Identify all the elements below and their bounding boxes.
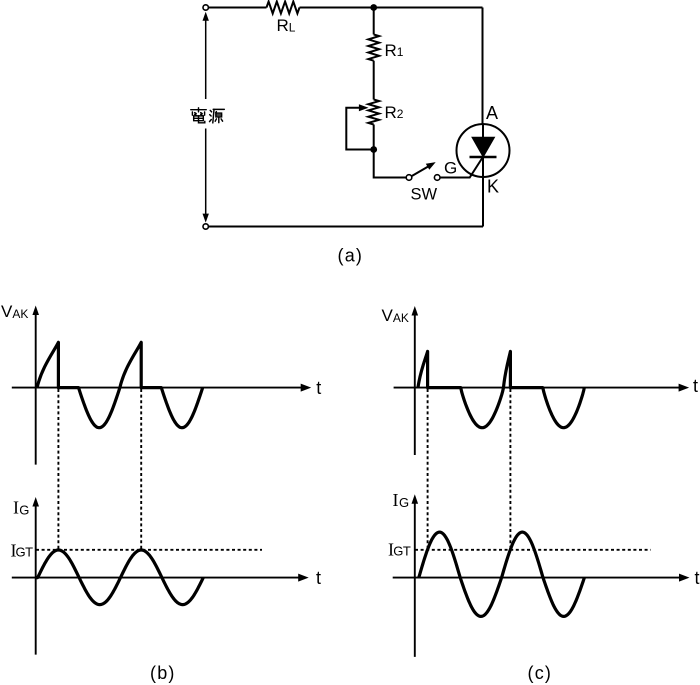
thyristor SCR body circle bbox=[457, 124, 510, 177]
dashed firing line 2 (b) bbox=[140, 389, 142, 550]
arrowhead V axis (c) bbox=[412, 306, 419, 316]
switch SW terminal right bbox=[434, 175, 440, 181]
axis I_G (c) bbox=[393, 502, 682, 657]
svg-text:t: t bbox=[316, 378, 321, 398]
resistor R1 bbox=[368, 35, 379, 61]
arrowhead I axis (c) bbox=[412, 494, 419, 504]
terminal bottom bbox=[203, 224, 208, 229]
node junction top bbox=[370, 4, 377, 11]
arrowhead I axis (b) bbox=[32, 497, 39, 507]
wiper arrowhead of R2 bbox=[359, 104, 369, 111]
node junction R2 bottom bbox=[370, 146, 377, 153]
svg-text:G: G bbox=[19, 502, 29, 517]
axis I_G (b) bbox=[12, 506, 301, 655]
源 bbox=[210, 110, 212, 121]
電 bbox=[191, 109, 206, 111]
threshold dashed I_GT (b) bbox=[36, 549, 262, 551]
svg-text:GT: GT bbox=[16, 545, 34, 560]
axis V_AK (b) bbox=[12, 314, 304, 465]
terminal top bbox=[203, 5, 208, 10]
wire top left segment bbox=[208, 7, 266, 9]
power source dimension arrow bbox=[203, 12, 209, 223]
svg-text:t: t bbox=[693, 376, 698, 396]
thyristor SCR cathode bar bbox=[470, 156, 497, 158]
wire R1 to R2 bbox=[373, 61, 375, 100]
svg-text:SW: SW bbox=[411, 186, 438, 204]
threshold dashed I_GT (c) bbox=[415, 549, 651, 551]
svg-text:(c): (c) bbox=[528, 663, 553, 683]
resistor RL bbox=[267, 2, 300, 14]
wire switch to gate bbox=[440, 157, 483, 178]
label 電源 (hand-drawn glyphs) bbox=[191, 108, 225, 123]
wire bottom bbox=[208, 226, 483, 228]
svg-text:A: A bbox=[486, 103, 498, 123]
wire mid vertical above R1 bbox=[373, 8, 375, 35]
svg-text:G: G bbox=[399, 495, 409, 510]
waveform V_AK (c) bbox=[418, 351, 584, 427]
thyristor SCR anode triangle bbox=[472, 137, 495, 157]
dashed firing line 2 (c) bbox=[509, 389, 511, 550]
arrowhead V axis (b) bbox=[32, 306, 39, 316]
svg-text:(b): (b) bbox=[150, 663, 176, 683]
wire right vertical (anode side) bbox=[482, 8, 484, 125]
axis V_AK (c) bbox=[394, 315, 681, 456]
wire cathode to bottom bbox=[482, 157, 484, 227]
switch SW arm bbox=[411, 167, 428, 177]
switch SW arm arrowhead bbox=[426, 162, 436, 170]
wire R2 to switch corner bbox=[374, 125, 407, 178]
svg-text:(a): (a) bbox=[338, 246, 364, 266]
svg-text:K: K bbox=[487, 177, 499, 197]
arrowhead t axis (c bottom) bbox=[679, 574, 690, 582]
dashed firing line 1 (b) bbox=[57, 389, 59, 550]
wire top right segment bbox=[300, 7, 483, 9]
dashed firing line 1 (c) bbox=[427, 389, 429, 550]
waveform I_G (c) bbox=[419, 532, 585, 616]
potentiometer R2 bbox=[368, 100, 379, 125]
svg-text:GT: GT bbox=[393, 544, 411, 559]
svg-text:I: I bbox=[13, 498, 19, 518]
arrowhead t axis (c top) bbox=[679, 384, 690, 392]
svg-text:t: t bbox=[316, 568, 321, 588]
svg-text:t: t bbox=[695, 568, 700, 588]
waveform V_AK (b) bbox=[37, 342, 203, 427]
wire anode into SCR bbox=[482, 124, 484, 138]
svg-text:I: I bbox=[393, 490, 399, 510]
arrowhead t axis (b bottom) bbox=[298, 574, 309, 582]
svg-text:G: G bbox=[444, 159, 457, 178]
switch SW terminal left bbox=[406, 175, 412, 181]
waveform I_G (b) bbox=[36, 550, 203, 605]
wiper wire of R2 bbox=[346, 108, 370, 150]
arrowhead t axis (b top) bbox=[301, 384, 312, 392]
